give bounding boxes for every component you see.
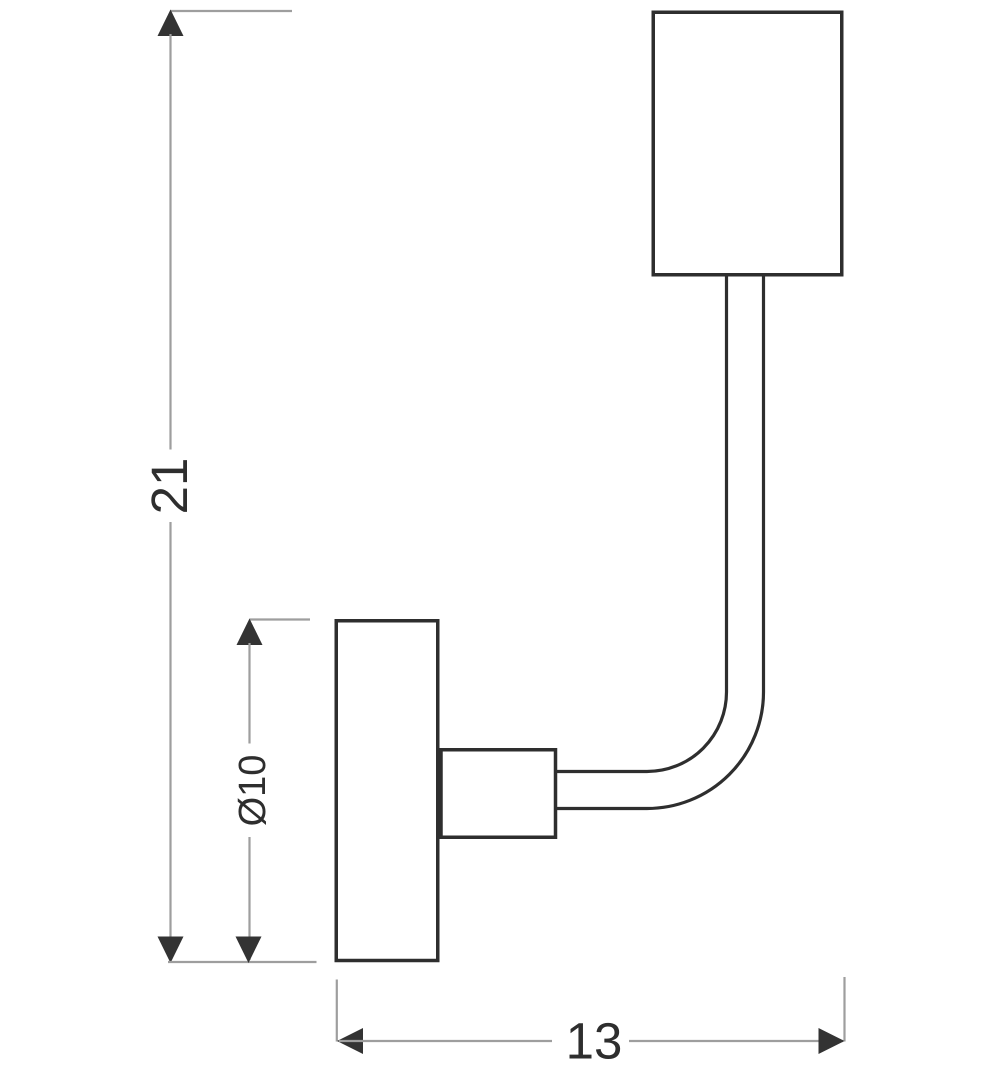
dim 13 left arrow [337,1028,363,1054]
dim 13 left extension line [336,980,338,1042]
dim 21 top extension line [171,10,293,12]
dim 13 right extension line [843,977,845,1042]
svg-text:Ø10: Ø10 [232,755,274,827]
dim 21 bottom arrow [158,937,184,964]
lamp shade (top rectangle) [653,12,842,275]
mount connector (small rectangle) [441,750,556,838]
wall plate (left rectangle) [336,621,438,961]
dim 21 line upper segment [169,34,171,450]
tube arm outer line [557,277,764,809]
dim 10 bottom arrow [236,937,262,964]
dim 10 top extension line [250,618,311,620]
dim 10 line lower segment [248,837,250,960]
dim 13 line right segment [629,1040,843,1042]
dim 10 line upper segment [248,643,250,744]
dim 10 top arrow [237,619,263,646]
dim 21 / dim 10 bottom extension line [168,961,317,963]
svg-text:21: 21 [141,458,198,515]
dim 21 top arrow [158,10,184,37]
dim 13 right arrow [819,1028,845,1054]
dim 13 line left segment [339,1040,552,1042]
dim 21 line lower segment [169,522,171,961]
svg-text:13: 13 [566,1013,623,1070]
tube arm inner line [557,277,727,772]
